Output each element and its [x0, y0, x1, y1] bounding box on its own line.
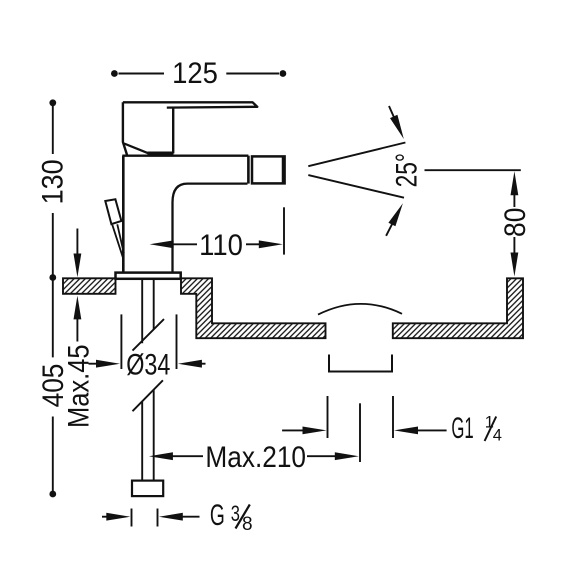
faucet lever handle — [123, 102, 257, 107]
handle left edge — [123, 102, 127, 155]
25 deg bottom arrow — [386, 223, 392, 236]
svg-text:110: 110 — [199, 229, 243, 262]
spout right edge — [247, 156, 250, 184]
svg-text:25°: 25° — [389, 153, 423, 187]
svg-text:8: 8 — [242, 514, 253, 535]
dimension G1 1/4 — [282, 429, 304, 431]
dimension 130 / 405 vertical line — [52, 103, 54, 494]
handle chamfer — [124, 144, 148, 154]
pop-up knob — [105, 199, 121, 224]
svg-text:Ø34: Ø34 — [126, 348, 170, 381]
svg-text:Max.210: Max.210 — [205, 439, 306, 473]
svg-text:G1: G1 — [451, 412, 473, 445]
handle neck right edge — [172, 108, 174, 154]
dimension G 3/8 — [102, 516, 108, 518]
svg-text:Max.45: Max.45 — [62, 344, 95, 428]
faucet body left edge — [122, 156, 125, 273]
deck far-right hatched section with end column — [393, 278, 523, 338]
pipe break upper — [133, 319, 165, 351]
pipe end connector — [132, 481, 163, 497]
arc over drain hole — [318, 304, 402, 315]
dimension 125 — [119, 73, 280, 75]
dimension Max.210 — [149, 452, 173, 460]
svg-text:130: 130 — [36, 159, 70, 204]
spray angle 25 deg lines — [308, 143, 405, 167]
base flange — [116, 273, 181, 279]
drain thread tick left — [327, 396, 329, 438]
pop-up rod — [112, 224, 124, 259]
dimension 110 — [150, 240, 174, 248]
supply pipe upper segment — [142, 279, 154, 343]
svg-text:125: 125 — [172, 57, 218, 90]
dimension Max.45 arrows — [76, 229, 78, 257]
dimension 80 — [425, 169, 521, 171]
supply pipe lower segment — [142, 390, 154, 481]
handle bottom seat (thick) — [148, 151, 174, 154]
aerator — [252, 156, 285, 183]
spout underside and inner curve — [173, 184, 248, 273]
25 deg top arrow — [389, 106, 395, 119]
dimension O34 — [120, 314, 122, 369]
svg-text:80: 80 — [497, 208, 531, 237]
faucet body top edge — [122, 155, 248, 157]
drain thread tick right — [392, 396, 394, 438]
deck left hatched band — [63, 278, 116, 294]
drain center line — [359, 403, 361, 462]
deck right stepped hatched section — [181, 278, 326, 338]
pipe break lower — [133, 380, 163, 411]
drain U flange — [329, 355, 392, 372]
svg-text:4: 4 — [493, 427, 502, 445]
svg-text:G: G — [210, 499, 225, 532]
